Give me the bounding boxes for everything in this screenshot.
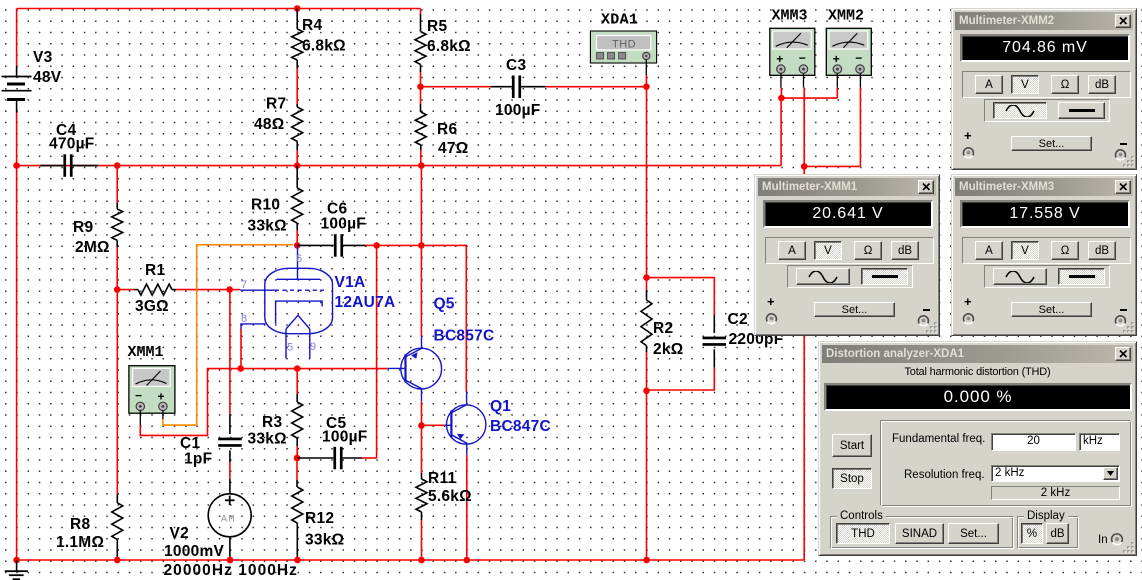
multimeter icon XMM1 (129, 366, 175, 414)
svg-text:1pF: 1pF (184, 451, 212, 468)
resistor R11 (421, 426, 423, 474)
resistor R4 (296, 9, 298, 30)
wire C6 right lead to node (366, 244, 377, 246)
svg-text:R6: R6 (437, 121, 457, 138)
wire C4 net y=166 long horizontal (17, 165, 782, 167)
capacitor C5 (297, 457, 333, 459)
wire C1 to V2 (229, 462, 231, 479)
resistor R2 (646, 278, 648, 290)
wire output node to Q1 collector branch (421, 245, 466, 391)
wire XMM2 minus terminal lead (859, 73, 861, 87)
node XMM plus junction (778, 95, 785, 102)
tube V1A heater (286, 315, 310, 329)
svg-text:R7: R7 (266, 96, 286, 113)
wire R9 top lead (116, 166, 118, 203)
svg-text:V1A: V1A (335, 274, 366, 291)
resistor R10 (296, 166, 298, 188)
tube V1A grid dashed (240, 289, 274, 291)
svg-text:XDA1: XDA1 (601, 12, 638, 29)
wire C6 node to Q5 node (377, 244, 422, 246)
wire R7 bottom to y166 net (296, 150, 298, 166)
svg-text:33kΩ: 33kΩ (305, 532, 344, 549)
svg-text:2MΩ: 2MΩ (75, 239, 110, 256)
svg-text:5: 5 (287, 342, 293, 354)
svg-text:R2: R2 (653, 320, 673, 337)
svg-text:C2: C2 (728, 311, 748, 328)
svg-text:XMM1: XMM1 (128, 344, 164, 361)
wire R1 to grid node (176, 289, 230, 291)
resistor R9 (116, 203, 118, 209)
svg-text:R11: R11 (428, 470, 456, 487)
node pin8 junction (237, 365, 244, 372)
wire C5 right to C6 node (376, 245, 378, 458)
svg-text:8: 8 (241, 313, 247, 325)
node grid pin7 junction (226, 286, 233, 293)
svg-text:BC847C: BC847C (490, 418, 551, 435)
tube V1A anode plate (277, 278, 321, 280)
wire XMM3 minus terminal lead (803, 73, 805, 87)
svg-text:48V: 48V (33, 69, 62, 86)
vacuum tube V1A outline (265, 268, 333, 333)
wire XMM1 minus to pin8 net (140, 369, 387, 436)
capacitor C2 (713, 315, 715, 333)
node C3/XDA1 junction (643, 83, 650, 90)
wire XMM1 minus terminal lead (139, 411, 141, 426)
wire C2 branch bottom (647, 368, 715, 390)
node R8 bottom on ground bus (114, 557, 121, 564)
svg-text:6: 6 (296, 253, 302, 265)
wire orange XMM1 plus to C6 node (163, 245, 293, 425)
node R6 bottom junction (418, 162, 425, 169)
capacitor C3 (421, 86, 491, 88)
node R11 bottom on ground bus (418, 557, 425, 564)
node ground bus left corner (13, 557, 20, 564)
battery V3 (16, 66, 18, 76)
svg-text:V3: V3 (33, 49, 53, 66)
node R2/C2 top junction (643, 274, 650, 281)
svg-text:R1: R1 (145, 262, 165, 279)
wire grid node down to C1 (229, 290, 231, 415)
wire R6 bottom to Q5 node (420, 166, 422, 246)
resistor R1 (134, 289, 138, 291)
svg-text:47Ω: 47Ω (438, 140, 468, 157)
svg-text:XMM2: XMM2 (828, 7, 864, 24)
svg-text:33kΩ: 33kΩ (248, 218, 287, 235)
transistor Q5 (401, 348, 442, 389)
wire XMM3 minus down to ground bus (803, 88, 805, 560)
svg-text:48Ω: 48Ω (254, 116, 284, 133)
svg-text:R3: R3 (262, 414, 282, 431)
node R10/C6/pin6 junction (294, 242, 301, 249)
wire left rail V3 to ground bus (16, 113, 18, 560)
wire C3 node down to R2 (646, 87, 648, 278)
svg-text:3GΩ: 3GΩ (135, 298, 169, 315)
svg-text:6.8kΩ: 6.8kΩ (302, 38, 346, 55)
resistor R6 (420, 87, 422, 104)
svg-text:1000mV: 1000mV (164, 543, 225, 560)
resistor R12 (296, 458, 298, 480)
capacitor C6 (297, 244, 334, 246)
svg-text:R10: R10 (251, 197, 280, 214)
wire R9 bottom to R1 node (116, 247, 118, 290)
tube V1A pin 6 anode lead (297, 245, 299, 279)
wire ground bus (17, 559, 805, 561)
ground symbol (16, 560, 18, 571)
svg-text:R5: R5 (427, 18, 447, 35)
resistor R8 (116, 290, 118, 495)
node R5/C3 junction (417, 83, 424, 90)
svg-text:V2: V2 (170, 525, 189, 542)
svg-text:−: − (855, 51, 862, 65)
svg-text:33kΩ: 33kΩ (248, 431, 287, 448)
svg-text:Q1: Q1 (490, 398, 511, 415)
node Q5 emitter 4-way junction (418, 242, 425, 249)
multimeter icon XMM3 (770, 28, 815, 75)
wire Q1 emitter to ground bus (466, 455, 468, 560)
wire plus terminals link (781, 97, 837, 99)
node left rail / C4 junction (13, 162, 20, 169)
node C4/R9 junction (114, 162, 121, 169)
wire C2 branch top (647, 278, 715, 315)
svg-text:5.6kΩ: 5.6kΩ (428, 488, 472, 505)
wire R2 bottom to ground bus (646, 391, 648, 560)
svg-text:THD: THD (612, 39, 636, 51)
svg-text:−: − (799, 51, 806, 65)
svg-text:R9: R9 (73, 219, 93, 236)
wire V3 top lead (16, 9, 18, 67)
svg-text:7: 7 (241, 279, 247, 291)
node R3/C5/R12 junction (294, 455, 301, 462)
node R3 top junction (294, 365, 301, 372)
svg-text:−: − (135, 389, 142, 403)
svg-text:R12: R12 (305, 510, 334, 527)
svg-text:100µF: 100µF (495, 102, 541, 119)
node R2 branch on ground bus (643, 557, 650, 564)
svg-text:C1: C1 (180, 435, 200, 452)
svg-text:XMM3: XMM3 (772, 7, 808, 24)
node Q5/Q1/R11 junction (418, 422, 425, 429)
svg-text:BC857C: BC857C (434, 328, 495, 345)
node R4 top junction (294, 5, 301, 12)
transistor Q1 (447, 405, 486, 444)
wire XMM1 plus terminal lead (162, 411, 164, 419)
svg-text:R8: R8 (70, 516, 90, 533)
node R12 bottom on ground bus (294, 557, 301, 564)
svg-text:100µF: 100µF (321, 216, 367, 233)
svg-text:20000Hz 1000Hz: 20000Hz 1000Hz (164, 562, 298, 579)
tube V1A cathode (276, 301, 323, 324)
node R2/C2 bottom junction (643, 388, 650, 395)
svg-text:100µF: 100µF (322, 429, 368, 446)
wire XMM2 plus terminal lead (836, 73, 838, 87)
node C6/C5 junction (373, 242, 380, 249)
svg-text:AM: AM (221, 515, 236, 526)
svg-text:R4: R4 (302, 17, 322, 34)
svg-text:+: + (833, 52, 840, 66)
resistor R3 (296, 369, 298, 394)
distortion analyzer icon XDA1 (590, 31, 656, 63)
node V2 bottom on ground bus (227, 557, 234, 564)
svg-text:9: 9 (310, 341, 316, 353)
wire output net riser to plus terminals (780, 98, 782, 166)
capacitor C1 (229, 414, 231, 434)
capacitor C4 (40, 165, 63, 167)
wire Q1 base lead (422, 424, 445, 426)
wire Q5 emitter from output node (420, 245, 422, 336)
wire XDA1 terminal lead (645, 60, 647, 75)
svg-text:+: + (776, 52, 783, 66)
svg-text:C3: C3 (506, 57, 526, 74)
wire top bus from V3 to R4/R5 (17, 8, 421, 10)
svg-text:1.1MΩ: 1.1MΩ (56, 534, 104, 551)
node XMM minus junction (801, 163, 808, 170)
svg-text:6.8kΩ: 6.8kΩ (427, 38, 471, 55)
svg-text:Q5: Q5 (434, 296, 455, 313)
wire R1 left lead (117, 289, 134, 291)
node Q1 emitter on ground bus (464, 557, 471, 564)
wire Q5 collector to Q1 base node (421, 402, 423, 426)
svg-text:2kΩ: 2kΩ (653, 341, 683, 358)
node R7/R10 4-way junction (294, 162, 301, 169)
svg-text:+: + (158, 390, 165, 404)
resistor R7 (296, 104, 298, 107)
wire minus terminals link (804, 165, 860, 167)
wire grid node to tube pin 7 (230, 289, 241, 291)
wire R4 to R7 (296, 68, 298, 104)
svg-text:470µF: 470µF (49, 136, 95, 153)
source V2 AM (229, 479, 231, 494)
wire XMM3 plus terminal lead (780, 73, 782, 87)
wire tube pin 8 cathode (241, 324, 266, 330)
svg-text:12AU7A: 12AU7A (335, 294, 396, 311)
multimeter icon XMM2 (826, 28, 871, 75)
node R9/R1 junction (114, 286, 121, 293)
resistor R5 (420, 9, 422, 15)
